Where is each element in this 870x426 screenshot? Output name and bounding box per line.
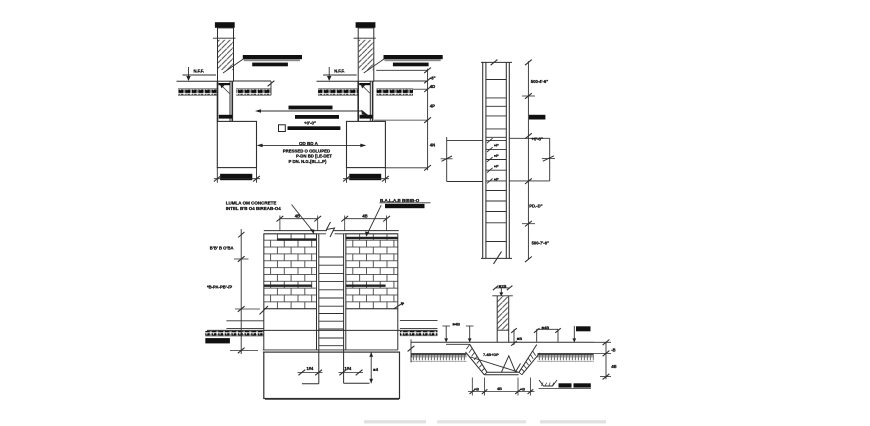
- left pier bond beam 1: [277, 238, 316, 240]
- svg-text:+B: +B: [474, 387, 479, 392]
- soil hatch left: [411, 354, 466, 362]
- stub width dimension: [493, 283, 513, 296]
- dim C label 1: [531, 79, 548, 84]
- svg-text:●P: ●P: [494, 143, 499, 148]
- svg-text:■4: ■4: [373, 367, 378, 372]
- detail B N.F.F. level marker: [323, 67, 357, 81]
- svg-text:7.4B+DP: 7.4B+DP: [483, 352, 499, 357]
- dim C tick 4: [525, 178, 532, 184]
- wall-footing interface lines: [263, 350, 398, 352]
- trench slope hatching: [466, 344, 535, 374]
- svg-text:4N: 4N: [430, 143, 436, 148]
- detail B floor slab bars: [384, 55, 443, 66]
- detail A stem rebar arrow: [220, 84, 230, 93]
- detail A ground line left: [177, 80, 218, 82]
- detail B stem rebar arrow: [361, 84, 371, 93]
- center label bar 2: [295, 115, 339, 119]
- svg-text:N.F.F.: N.F.F.: [194, 69, 204, 74]
- detail B stem walls below ground: [358, 81, 372, 121]
- dim B label 3: [430, 104, 435, 109]
- detail B footing bottom rebar bar: [349, 174, 381, 180]
- wall D break symbol: [327, 222, 335, 237]
- detail A ground line right: [234, 80, 272, 82]
- floor lines left: [226, 321, 263, 329]
- stub side dimension: [511, 328, 522, 345]
- floor hatch strip right of wall D: [400, 331, 438, 336]
- center note line 2: [296, 154, 332, 159]
- detail B floor hatch strip right: [376, 89, 413, 95]
- trench dimension arrows left: [442, 321, 473, 342]
- svg-text:-8": -8": [430, 75, 436, 80]
- dim B label 2: [430, 84, 436, 89]
- wall D top line: [264, 230, 399, 232]
- wall D left label 2: [207, 285, 232, 290]
- detail A floor hatch strip right: [236, 89, 271, 95]
- svg-text:■4B: ■4B: [453, 321, 461, 326]
- right pier bond beam 2: [346, 285, 386, 287]
- center level text: [304, 120, 316, 125]
- footing extra bar label: [373, 367, 378, 372]
- wall D note right bar: [385, 204, 425, 208]
- detail A slab leader: [223, 59, 244, 74]
- detail B column outline: [358, 28, 374, 81]
- svg-text:■4B: ■4B: [542, 325, 550, 330]
- wall D note right leader: [365, 205, 381, 236]
- left pier bond beam 2: [264, 285, 312, 287]
- wall D top dimension right: [341, 214, 390, 231]
- svg-text:4D: 4D: [430, 84, 436, 89]
- detail A column hatch: [218, 40, 233, 70]
- dim B label 4: [430, 143, 436, 148]
- svg-text:B.A.L.A.B BIBIB-O: B.A.L.A.B BIBIB-O: [380, 198, 420, 203]
- svg-text:■B: ■B: [517, 336, 522, 341]
- svg-text:+0'-0": +0'-0": [304, 120, 316, 125]
- detail B top cap plate: [356, 22, 376, 28]
- detail B footing width dimension: [343, 168, 389, 183]
- center legend box: [279, 125, 286, 132]
- svg-text:4B: 4B: [295, 214, 300, 219]
- svg-text:P DN. N.G.(BL.L.P): P DN. N.G.(BL.L.P): [289, 159, 327, 164]
- detail B ground line right: [374, 80, 428, 82]
- single down arrow with label: [572, 326, 590, 342]
- slab left end tick: [408, 339, 415, 362]
- detail A stem bottom rebar bar: [219, 115, 232, 119]
- footing depth dimension: [369, 352, 373, 383]
- wall D note right line 1: [380, 198, 420, 203]
- detail B slab leader: [364, 59, 385, 74]
- svg-text:*B-PA-PB'-/P: *B-PA-PB'-/P: [207, 285, 232, 290]
- faint title text 1: [364, 420, 426, 423]
- footing mini dim right: [339, 366, 364, 375]
- wall D top line 2: [264, 233, 398, 235]
- trench right dimension: [594, 340, 617, 380]
- ladder rungs: [319, 257, 344, 346]
- trench inner diagonal: [471, 357, 518, 372]
- leader line to stem walls: [255, 109, 370, 116]
- center label bar 3: [288, 126, 341, 130]
- footing D outline: [264, 352, 400, 398]
- col C band bar labels: [494, 143, 499, 182]
- leader line to footings: [257, 144, 367, 148]
- beam right of column C: [509, 138, 549, 181]
- wall D note right underline: [380, 202, 431, 204]
- detail A column outline: [218, 28, 234, 81]
- wall D right corner slash: [394, 302, 405, 309]
- center note line 1: [283, 148, 330, 153]
- detail A footing bottom rebar bar: [220, 174, 252, 180]
- dim C tick 3: [525, 133, 532, 139]
- ladder reinforcement bars: [319, 234, 344, 384]
- svg-text:4B: 4B: [611, 364, 616, 369]
- detail A footing width dimension: [214, 168, 260, 183]
- beam right edge tick: [542, 156, 555, 161]
- dim B vertical line: [427, 69, 429, 171]
- footing D bottom line: [265, 398, 399, 400]
- trench dimension arrows right: [534, 325, 561, 342]
- detail B column hatch: [359, 40, 374, 70]
- floor hatch strip left of wall D: [205, 331, 263, 336]
- detail A N.F.F. level marker: [183, 67, 217, 81]
- trench bottom dimensions: [468, 378, 535, 396]
- trench cut outline: [466, 344, 540, 375]
- svg-text:500-7'-6": 500-7'-6": [532, 241, 549, 246]
- detail A stem top rebar bar: [219, 83, 230, 85]
- rebar bottom hooks: [302, 382, 370, 385]
- right brick pier: [346, 234, 398, 309]
- dim C label 3: [529, 203, 542, 208]
- detail B stem top rebar bar: [359, 83, 370, 85]
- dim B tick at footing bottom: [385, 165, 431, 171]
- right pier bond beam 1: [346, 237, 398, 239]
- detail B floor hatch strip left: [318, 89, 358, 95]
- svg-text:PD.-D": PD.-D": [529, 203, 542, 208]
- stub top line: [492, 295, 513, 297]
- wall D note left line 1: [226, 200, 277, 205]
- col C top slash: [491, 60, 498, 66]
- center footing note: [299, 141, 319, 146]
- svg-text:INTEL B'B O4 BIREAB-O4: INTEL B'B O4 BIREAB-O4: [226, 206, 281, 211]
- col C top end line: [481, 61, 512, 63]
- faint title text 3: [540, 420, 606, 423]
- dim C tick 1: [525, 60, 532, 66]
- detail A floor edge tick: [268, 81, 275, 95]
- floor line across: [207, 329, 438, 331]
- col C band tick slashes: [487, 138, 493, 183]
- wall D left label 1: [210, 246, 234, 251]
- dim C label 4: [532, 241, 549, 246]
- svg-text:4B: 4B: [497, 386, 502, 391]
- svg-text:4P: 4P: [430, 104, 435, 109]
- wall D top dimension left: [277, 214, 322, 231]
- svg-text:P-DN BD [LE-DET: P-DN BD [LE-DET: [296, 154, 332, 159]
- center label bar 1: [289, 106, 333, 110]
- svg-text:500-4'-6": 500-4'-6": [531, 79, 548, 84]
- svg-text:-B: -B: [611, 348, 615, 353]
- dim C tick 5: [522, 221, 535, 227]
- dim C tick 2: [522, 93, 535, 99]
- detail A footing outline: [217, 121, 256, 167]
- ground slab line A: [411, 341, 594, 343]
- svg-text:LUMLA OM CONCRETE: LUMLA OM CONCRETE: [226, 200, 277, 205]
- wall D note left line 2: [226, 206, 281, 211]
- soil line B right: [538, 352, 594, 354]
- dim B tick at slab: [376, 68, 431, 74]
- beam left edge tick: [441, 156, 453, 161]
- hatched wall stub: [497, 296, 509, 343]
- detail A floor hatch strip left: [178, 89, 218, 95]
- svg-text:4B: 4B: [362, 214, 367, 219]
- trench label: [483, 352, 499, 357]
- wall D note left leader: [292, 205, 315, 235]
- dim C label 2: [532, 136, 543, 141]
- wall D left corner slash: [260, 306, 269, 315]
- col C bottom end line: [481, 257, 512, 259]
- dim C black bar label: [529, 115, 545, 120]
- svg-text:1#4: 1#4: [345, 366, 353, 371]
- detail A collar line: [213, 37, 236, 39]
- col C tie rungs: [486, 80, 506, 242]
- svg-text:B'B' B O'BA: B'B' B O'BA: [210, 246, 234, 251]
- soil line B left: [411, 352, 466, 354]
- svg-text:N.F.F.: N.F.F.: [334, 69, 344, 74]
- detail A floor slab bars: [243, 55, 302, 66]
- svg-text:+B: +B: [520, 387, 525, 392]
- soil hatch right: [538, 354, 594, 362]
- svg-text:1#4: 1#4: [307, 366, 315, 371]
- floor lines right: [400, 321, 438, 329]
- detail B ground line left: [317, 80, 359, 82]
- svg-text:●P: ●P: [494, 164, 499, 169]
- detail A stem walls below ground: [218, 81, 233, 121]
- detail B collar line: [354, 37, 376, 39]
- svg-text:●P: ●P: [494, 177, 499, 182]
- svg-text:●P: ●P: [494, 153, 499, 158]
- trench zigzag: [502, 356, 521, 372]
- detail B stem bottom rebar bar: [360, 115, 373, 119]
- dim C vertical line: [527, 61, 529, 259]
- wall D plinth walls: [264, 309, 398, 350]
- floor label bar: [205, 338, 230, 343]
- col C vertical bars: [483, 62, 510, 258]
- typ trench icon and label: [539, 380, 592, 389]
- dim B tick at footing top: [374, 117, 431, 123]
- svg-text:+0'-0": +0'-0": [532, 136, 543, 141]
- wall D left dimension line: [230, 229, 260, 354]
- col C bottom slash: [494, 252, 502, 265]
- left brick pier: [264, 234, 317, 309]
- slab second line: [446, 343, 470, 345]
- dim B label 1: [430, 75, 436, 80]
- dim B tick at ground: [424, 78, 431, 84]
- detail B footing outline: [347, 121, 386, 167]
- dim C tick 6: [525, 257, 532, 263]
- detail A top cap plate: [215, 22, 235, 28]
- dim B tick at strip: [413, 86, 431, 92]
- footing mini dim left: [298, 366, 323, 375]
- faint title text 2: [437, 420, 526, 423]
- beam left of column C: [447, 137, 483, 182]
- center note line 3: [289, 159, 327, 164]
